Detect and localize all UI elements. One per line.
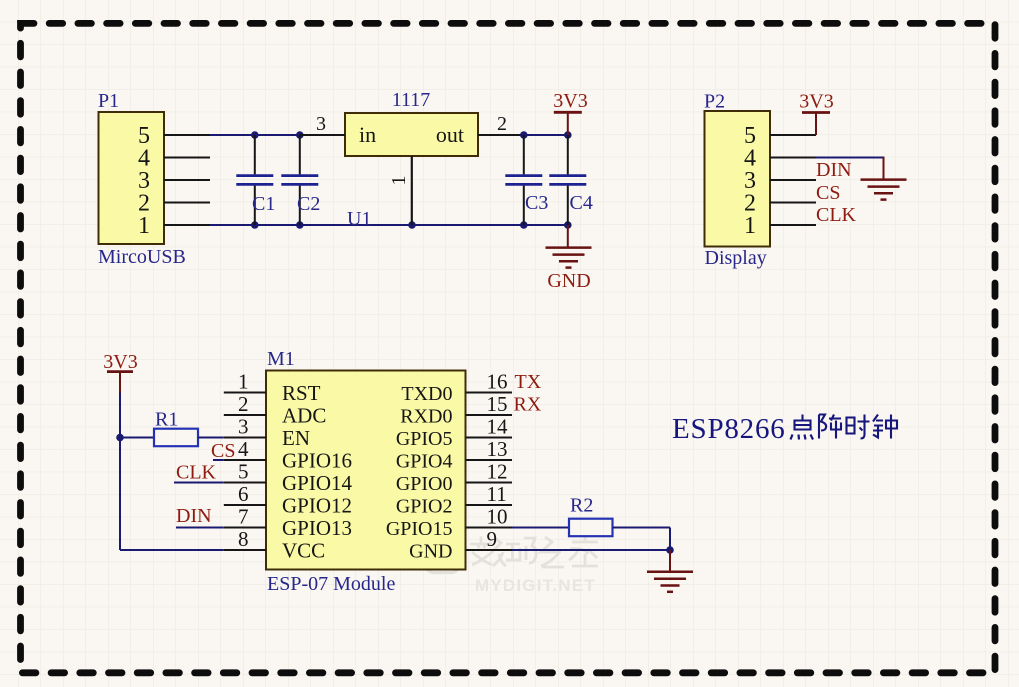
svg-text:VCC: VCC [282, 538, 325, 562]
connector P2 pin 5 [770, 134, 816, 136]
module M1 right pin 9 [466, 549, 513, 551]
ground GND below C4 bars [546, 246, 592, 249]
junction on pin5 wire at C2 [296, 131, 304, 139]
power 3V3 at P2 symbol [802, 111, 830, 114]
wire GPIO15 to R2 [512, 527, 569, 529]
svg-text:2: 2 [238, 392, 249, 416]
svg-text:GPIO0: GPIO0 [396, 473, 453, 495]
junction on ground rail at C2 [296, 221, 304, 229]
svg-text:GND: GND [409, 540, 452, 562]
svg-text:MYDIGIT.NET: MYDIGIT.NET [475, 576, 596, 595]
svg-text:15: 15 [487, 392, 508, 416]
svg-text:C4: C4 [570, 192, 593, 214]
svg-text:GPIO2: GPIO2 [396, 495, 453, 517]
svg-text:RX: RX [514, 394, 542, 416]
svg-text:GPIO16: GPIO16 [282, 448, 352, 472]
module M1 left pin 8 [224, 549, 266, 551]
svg-text:TXD0: TXD0 [401, 383, 452, 405]
wire CLK to GPIO14 [174, 482, 224, 484]
junction at R2 ground [666, 546, 674, 554]
wire VCC horizontal [120, 549, 224, 551]
svg-text:3V3: 3V3 [799, 91, 833, 113]
capacitor C1 [254, 135, 256, 174]
module M1 right pin 10 [466, 527, 513, 529]
capacitor C2 [299, 135, 301, 174]
svg-text:14: 14 [487, 415, 509, 439]
svg-text:RXD0: RXD0 [400, 405, 452, 427]
svg-text:1: 1 [238, 370, 249, 394]
junction on pin5 wire at C1 [251, 131, 259, 139]
watermark logo [427, 541, 459, 573]
resistor R2 [569, 519, 613, 537]
svg-text:CS: CS [816, 182, 840, 204]
svg-text:13: 13 [487, 437, 508, 461]
module M1 body [266, 371, 466, 570]
svg-text:3: 3 [316, 113, 326, 135]
svg-text:GPIO15: GPIO15 [386, 518, 453, 540]
svg-text:1: 1 [744, 213, 756, 239]
module M1 right pin 15 [466, 414, 513, 416]
ground at P2 bars [861, 178, 907, 181]
junction output wire at C4 [564, 131, 572, 139]
svg-text:10: 10 [487, 505, 508, 529]
svg-text:GPIO14: GPIO14 [282, 471, 353, 495]
svg-text:ESP-07 Module: ESP-07 Module [267, 573, 395, 595]
svg-text:CLK: CLK [176, 462, 217, 484]
svg-text:R2: R2 [570, 495, 593, 517]
module M1 left pin 4 [224, 459, 266, 461]
svg-text:12: 12 [487, 460, 508, 484]
connector P2 pin 1 [770, 224, 816, 226]
svg-text:CLK: CLK [816, 204, 857, 226]
svg-text:C1: C1 [252, 193, 275, 215]
wire stub pin4 GPIO16 [213, 459, 224, 461]
svg-text:DIN: DIN [816, 159, 852, 181]
connector P1 pin 1 [164, 224, 210, 226]
svg-text:7: 7 [238, 505, 249, 529]
junction on ground rail at U1 pin1 [408, 221, 416, 229]
ground at R2 bars [647, 571, 693, 574]
module M1 left pin 3 [224, 437, 266, 439]
svg-text:1: 1 [138, 213, 150, 239]
svg-text:ADC: ADC [282, 403, 326, 427]
connector P1 body [99, 112, 165, 244]
svg-text:GPIO5: GPIO5 [396, 428, 453, 450]
module M1 left pin 6 [224, 504, 266, 506]
svg-text:ESP8266: ESP8266 [672, 413, 786, 445]
ground rail wire P1 pin1 to GND [210, 224, 568, 226]
svg-text:M1: M1 [267, 348, 295, 370]
svg-text:2: 2 [497, 113, 507, 135]
svg-text:3: 3 [238, 415, 249, 439]
wire GND pin to junction [512, 549, 670, 551]
connector P1 pin 3 [164, 179, 210, 181]
svg-text:6: 6 [238, 482, 249, 506]
wire P1 pin5 to C1 C2 and U1 in [210, 134, 300, 136]
svg-text:DIN: DIN [176, 505, 212, 527]
svg-text:TX: TX [515, 371, 542, 393]
connector P2 pin 4 [770, 157, 816, 159]
svg-text:P2: P2 [704, 91, 725, 113]
connector P1 pin 5 [164, 134, 210, 136]
power 3V3 at M1 symbol [107, 370, 133, 373]
regulator U1 pin 3 [300, 134, 345, 136]
svg-text:11: 11 [487, 482, 507, 506]
title text CJK 点阵时钟 [791, 415, 898, 440]
junction on ground rail at C4 [564, 221, 572, 229]
power 3V3 top symbol [554, 111, 582, 114]
svg-text:8: 8 [238, 527, 249, 551]
svg-text:R1: R1 [155, 409, 178, 431]
svg-text:1117: 1117 [392, 89, 431, 111]
svg-text:GND: GND [547, 270, 590, 292]
ground at P2 stem [883, 157, 885, 180]
wire DIN to GPIO13 [176, 527, 224, 529]
wire P2 pin4 to ground [816, 157, 884, 159]
junction output wire at C3 [520, 131, 528, 139]
svg-text:9: 9 [487, 527, 498, 551]
module M1 left pin 5 [224, 482, 266, 484]
module M1 left pin 2 [224, 414, 266, 416]
wire R2 to corner [613, 527, 671, 529]
svg-text:Display: Display [705, 247, 767, 269]
svg-text:GPIO4: GPIO4 [396, 450, 453, 472]
module M1 right pin 13 [466, 459, 513, 461]
svg-text:1: 1 [388, 176, 410, 186]
wire R1 to EN pin [198, 437, 224, 439]
svg-text:in: in [359, 122, 376, 147]
svg-text:GPIO12: GPIO12 [282, 493, 352, 517]
capacitor C3 [523, 135, 525, 174]
module M1 right pin 11 [466, 504, 513, 506]
connector P2 pin numbers [744, 123, 756, 239]
svg-text:EN: EN [282, 426, 310, 450]
module M1 right pin 12 [466, 482, 513, 484]
svg-text:CS: CS [211, 440, 235, 462]
module M1 left pin 1 [224, 392, 266, 394]
regulator U1 pin 1 [411, 156, 413, 225]
wire 3V3 rail down to VCC [119, 393, 121, 551]
svg-text:4: 4 [238, 437, 249, 461]
ground at R2 stem [669, 550, 671, 572]
svg-text:GPIO13: GPIO13 [282, 516, 352, 540]
wire 3V3 to R1 [120, 437, 154, 439]
connector P1 pin numbers [138, 123, 150, 239]
svg-text:out: out [436, 122, 464, 147]
capacitor C4 [567, 135, 569, 174]
svg-text:3V3: 3V3 [103, 351, 137, 373]
connector P2 pin 3 [770, 179, 816, 181]
svg-text:C3: C3 [525, 192, 548, 214]
watermark text shumazhijia [470, 537, 598, 568]
ground GND below C4 stem [567, 225, 569, 247]
svg-text:U1: U1 [347, 208, 371, 230]
connector P2 pin 2 [770, 202, 816, 204]
svg-text:P1: P1 [98, 90, 119, 112]
svg-text:RST: RST [282, 381, 321, 405]
regulator U1 body [345, 113, 478, 156]
junction at R1 branch [116, 434, 124, 442]
junction on ground rail at C3 [520, 221, 528, 229]
wire U1 out to C3 C4 and 3V3 [523, 134, 568, 136]
wire corner down [669, 528, 671, 551]
connector P1 pin 2 [164, 202, 210, 204]
module M1 left pin 7 [224, 527, 266, 529]
connector P2 body [705, 111, 771, 247]
svg-text:C2: C2 [297, 193, 320, 215]
junction on ground rail at C1 [251, 221, 259, 229]
svg-text:5: 5 [238, 460, 249, 484]
regulator U1 pin 2 [478, 134, 523, 136]
svg-text:3V3: 3V3 [553, 90, 587, 112]
module M1 right pin 16 [466, 392, 513, 394]
resistor R1 [154, 429, 198, 447]
module M1 right pin 14 [466, 437, 513, 439]
connector P1 pin 4 [164, 157, 210, 159]
svg-text:MircoUSB: MircoUSB [98, 246, 186, 268]
svg-text:16: 16 [487, 370, 508, 394]
